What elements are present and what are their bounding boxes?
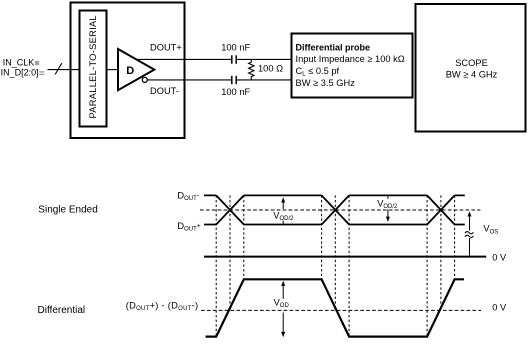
capacitor C1 (top, 100 nF): [231, 55, 233, 63]
dashed mid level line (single ended): [200, 209, 480, 211]
link marker after IN_D[2:0]: [39, 71, 44, 72]
svg-text:0 V: 0 V: [492, 303, 507, 313]
DOUT+ wire: [137, 58, 231, 60]
svg-text:BW ≥ 4 GHz: BW ≥ 4 GHz: [446, 69, 498, 79]
inverting output bubble: [142, 77, 147, 82]
resistor R1 (100 ohm): [249, 59, 254, 80]
svg-text:D: D: [126, 65, 134, 77]
VOS arrow: [469, 214, 471, 257]
dashed vertical guide 1: [215, 195, 217, 336]
VOD/2 arrow 1 (up): [282, 202, 284, 210]
wire: parallel-to-serial to buffer: [107, 69, 119, 71]
link marker after IN_CLK: [35, 61, 39, 65]
bus slash: [55, 63, 62, 74]
scope box: [416, 4, 526, 132]
svg-text:Single Ended: Single Ended: [38, 204, 98, 215]
svg-text:0 V: 0 V: [492, 252, 507, 262]
single-ended waveform trace (D_OUT- / D_OUT+ crossing pattern): [204, 195, 465, 224]
dashed vertical guide 8: [440, 195, 442, 308]
dashed vertical guide 5: [334, 195, 336, 308]
DOUT- wire: [147, 79, 231, 81]
svg-text:100 Ω: 100 Ω: [258, 64, 283, 74]
svg-text:Differential: Differential: [38, 305, 86, 316]
dashed vertical guide 2: [229, 195, 231, 308]
VOD arrow (double): [282, 284, 284, 299]
VOD/2 arrow 2 (down): [387, 196, 389, 199]
parallel-to-serial box: [80, 11, 107, 127]
0V line (single ended): [204, 256, 486, 258]
svg-text:IN_D[2:0]: IN_D[2:0]: [1, 68, 39, 78]
dashed vertical guide 6: [348, 195, 350, 336]
svg-text:PARALLEL-TO-SERIAL: PARALLEL-TO-SERIAL: [88, 15, 98, 118]
svg-text:SCOPE: SCOPE: [455, 58, 488, 68]
svg-text:100 nF: 100 nF: [221, 43, 250, 53]
svg-text:Differential probe: Differential probe: [296, 42, 371, 52]
svg-text:Input Impedance ≥ 100 kΩ: Input Impedance ≥ 100 kΩ: [296, 54, 405, 64]
svg-text:100 nF: 100 nF: [221, 87, 250, 97]
svg-text:BW ≥ 3.5 GHz: BW ≥ 3.5 GHz: [296, 78, 356, 88]
dashed vertical guide 7: [426, 195, 428, 336]
svg-text:DOUT+: DOUT+: [150, 43, 182, 53]
input wire: [48, 69, 80, 71]
buffer triangle U1: [118, 49, 154, 90]
dashed vertical guide 9: [454, 195, 456, 279]
dashed zero line (differential): [201, 309, 481, 311]
svg-text:DOUT-: DOUT-: [150, 86, 179, 96]
svg-text:IN_CLK: IN_CLK: [3, 57, 35, 67]
differential waveform trace: [206, 279, 464, 336]
break symbol: [464, 231, 475, 239]
dashed vertical guide 4: [321, 195, 323, 279]
differential probe box: [292, 34, 413, 98]
capacitor C2 (bottom, 100 nF): [231, 76, 233, 84]
dashed vertical guide 3: [243, 195, 245, 279]
outer box (serializer block): [71, 3, 185, 139]
